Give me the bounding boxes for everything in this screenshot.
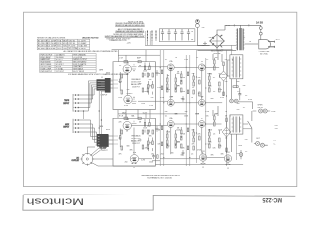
svg-text:R INPUT: R INPUT	[100, 150, 108, 152]
svg-text:.05: .05	[213, 91, 215, 93]
svg-text:250: 250	[125, 162, 128, 164]
svg-text:C+: C+	[274, 140, 276, 142]
svg-text:12: 12	[133, 167, 135, 169]
svg-text:0.1: 0.1	[213, 77, 215, 79]
svg-text:.25: .25	[206, 59, 208, 61]
svg-text:INPUT: INPUT	[63, 103, 70, 105]
svg-text:RESISTOR VALUES IN OHMS: RESISTOR VALUES IN OHMS	[37, 36, 66, 39]
svg-text:60 CY AC: 60 CY AC	[260, 53, 269, 56]
svg-text:4-8-16: 4-8-16	[258, 107, 263, 109]
svg-text:J1 INPUT: J1 INPUT	[78, 48, 87, 50]
svg-text:DRAWING NO 1255: DRAWING NO 1255	[110, 39, 128, 42]
svg-text:.25: .25	[225, 138, 227, 140]
svg-text:680: 680	[171, 153, 174, 155]
svg-text:6EU7: 6EU7	[122, 113, 126, 115]
svg-text:ALL CAPACITOR VALUES IN MFD UN: ALL CAPACITOR VALUES IN MFD UNLESS OTHER…	[64, 50, 119, 53]
svg-text:VOLTAGES MEASURED WITH VTVM TO: VOLTAGES MEASURED WITH VTVM TO CHASSIS G…	[68, 73, 129, 76]
svg-text:.25: .25	[191, 154, 193, 156]
svg-text:OUTLET: OUTLET	[72, 160, 80, 162]
svg-text:BAL: BAL	[131, 115, 134, 118]
svg-text:60 CY 180 W: 60 CY 180 W	[73, 71, 84, 73]
svg-text:7591: 7591	[63, 48, 67, 50]
svg-text:.25: .25	[221, 49, 223, 51]
svg-text:.02: .02	[215, 114, 217, 116]
svg-text:.02: .02	[208, 87, 210, 89]
svg-text:S1 AC SW: S1 AC SW	[78, 45, 87, 48]
svg-text:250K POT: 250K POT	[132, 143, 140, 145]
svg-text:McIntosh: McIntosh	[26, 197, 84, 207]
svg-text:.25: .25	[245, 151, 247, 153]
svg-text:2.2M: 2.2M	[141, 160, 145, 162]
svg-text:V4 D: V4 D	[57, 48, 62, 50]
svg-text:BRIDGE: BRIDGE	[214, 53, 222, 55]
svg-text:.05: .05	[213, 134, 215, 136]
svg-text:F1 3 AMP: F1 3 AMP	[78, 42, 87, 45]
svg-text:C4 40 MF: C4 40 MF	[48, 48, 57, 50]
svg-text:0.1: 0.1	[243, 107, 245, 109]
svg-text:680: 680	[211, 98, 214, 100]
svg-text:SCHEMATIC NO 122536: SCHEMATIC NO 122536	[147, 177, 172, 180]
svg-text:.05: .05	[245, 95, 247, 97]
svg-text:PWR SUPPLY: PWR SUPPLY	[40, 71, 52, 73]
svg-text:680: 680	[127, 146, 130, 148]
svg-text:0.1: 0.1	[198, 93, 200, 95]
svg-text:3A SB: 3A SB	[256, 21, 263, 24]
svg-text:680: 680	[181, 155, 184, 157]
svg-text:12: 12	[227, 168, 229, 170]
svg-text:SO OCTAL: SO OCTAL	[69, 47, 78, 50]
svg-text:0.1: 0.1	[165, 59, 167, 61]
svg-text:560: 560	[237, 103, 240, 105]
svg-text:.02: .02	[196, 57, 198, 59]
svg-text:.02: .02	[243, 37, 245, 39]
svg-text:250K POT: 250K POT	[132, 86, 140, 88]
svg-text:250: 250	[181, 98, 184, 100]
svg-text:250: 250	[245, 139, 248, 141]
svg-text:7591: 7591	[226, 152, 230, 154]
svg-text:0.1: 0.1	[208, 130, 210, 132]
svg-text:680: 680	[175, 114, 178, 116]
svg-text:.25: .25	[237, 91, 239, 93]
svg-text:.02: .02	[192, 87, 194, 89]
svg-text:2.2M: 2.2M	[205, 111, 209, 113]
svg-text:INPUT: INPUT	[63, 126, 70, 128]
svg-text:V3: V3	[201, 61, 203, 63]
svg-text:V7: V7	[201, 118, 203, 120]
svg-text:COM: COM	[271, 111, 276, 113]
svg-text:2.2M: 2.2M	[149, 105, 153, 107]
svg-text:250: 250	[167, 146, 170, 148]
svg-text:.02: .02	[119, 65, 121, 67]
svg-text:117 VOLT: 117 VOLT	[56, 71, 65, 73]
svg-text:680: 680	[192, 130, 195, 132]
svg-text:0.1: 0.1	[165, 116, 167, 118]
svg-text:J1: J1	[101, 77, 103, 79]
svg-text:6CG7: 6CG7	[143, 113, 147, 115]
svg-text:MC-225: MC-225	[262, 196, 282, 203]
svg-text:250: 250	[161, 154, 164, 156]
svg-text:TAPE: TAPE	[64, 99, 70, 102]
svg-text:12: 12	[202, 167, 204, 169]
svg-text:L INPUT: L INPUT	[101, 94, 109, 96]
